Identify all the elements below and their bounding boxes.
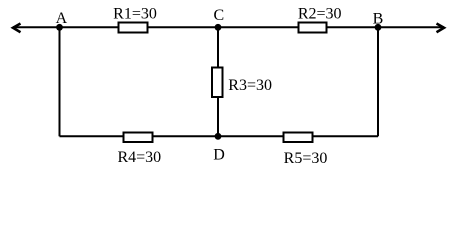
resistor R5	[284, 133, 313, 143]
wire left vertical A to bottom	[59, 27, 61, 136]
resistor R1	[119, 23, 148, 33]
wire top horizontal A-C-B with external arrow ends	[13, 26, 444, 28]
svg-text:R5=30: R5=30	[284, 150, 328, 167]
svg-text:A: A	[56, 10, 68, 27]
resistor R4	[124, 133, 153, 143]
svg-text:R1=30: R1=30	[113, 6, 157, 23]
wire bottom horizontal	[60, 135, 379, 137]
node D	[215, 133, 222, 140]
svg-text:C: C	[213, 7, 224, 24]
wire right vertical B to bottom	[377, 27, 379, 136]
node C	[215, 24, 222, 31]
resistor R3	[212, 68, 223, 98]
arrow right	[437, 24, 445, 33]
svg-text:B: B	[373, 10, 384, 27]
arrow left	[13, 24, 21, 33]
node B	[375, 24, 382, 31]
svg-text:D: D	[213, 146, 225, 163]
svg-text:R2=30: R2=30	[298, 6, 342, 23]
resistor R2	[299, 23, 327, 33]
svg-text:R4=30: R4=30	[117, 149, 161, 166]
node A	[56, 24, 63, 31]
svg-text:R3=30: R3=30	[228, 77, 272, 94]
wire middle vertical C to D	[217, 27, 219, 136]
